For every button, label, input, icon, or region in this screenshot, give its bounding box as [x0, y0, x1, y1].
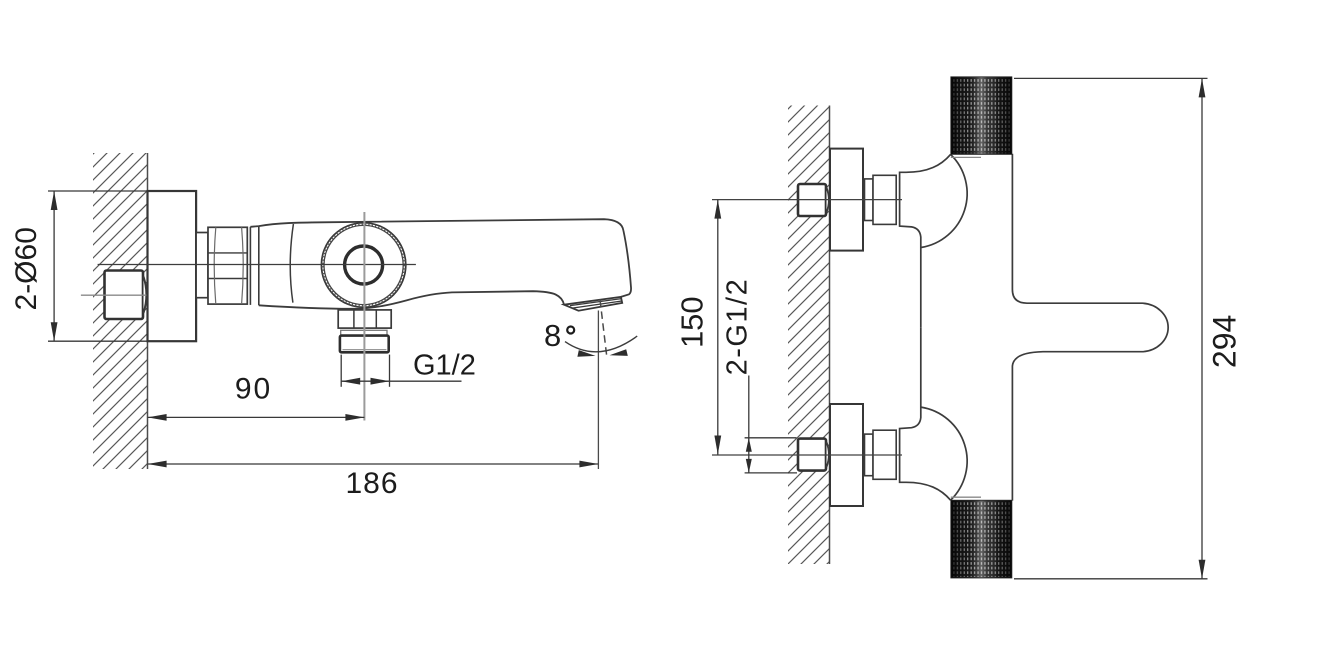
body junction arc left view — [290, 224, 293, 303]
faucet body top edge and spout left view — [250, 219, 631, 297]
svg-text:2-G1/2: 2-G1/2 — [722, 278, 754, 376]
dimension 2-G1/2 — [722, 278, 798, 473]
spout aerator tip left view — [564, 297, 622, 311]
wall surface line left view — [147, 153, 149, 469]
svg-text:8: 8 — [544, 318, 561, 353]
inlet square fitting left view — [105, 271, 147, 320]
vertical centerline through knob and outlet — [363, 212, 365, 421]
wall surface line right view — [829, 106, 831, 565]
top inlet connection right view — [712, 149, 981, 328]
spout flow dashed line 8 deg — [600, 300, 607, 358]
outlet hex nut below body left view — [338, 310, 391, 328]
escutcheon flange left view — [148, 191, 197, 341]
svg-text:G1/2: G1/2 — [413, 350, 476, 382]
body collar joint lines left view — [250, 226, 258, 305]
svg-text:294: 294 — [1207, 315, 1243, 368]
svg-text:2-Ø60: 2-Ø60 — [10, 227, 43, 310]
main horizontal centerline left view — [98, 264, 416, 266]
connector hex nut left view — [208, 227, 247, 304]
svg-text:90: 90 — [235, 373, 272, 406]
svg-text:186: 186 — [345, 467, 398, 500]
wall hatching left view — [93, 153, 148, 469]
dimension G1/2 on outlet — [341, 350, 476, 387]
outlet washer left view — [341, 330, 387, 335]
inlet square centerline — [81, 294, 151, 296]
svg-text:150: 150 — [675, 296, 710, 348]
dimension 90 — [148, 373, 365, 421]
dimension 150 — [675, 200, 722, 455]
bottom inlet connection right view (mirror) — [712, 327, 981, 506]
connector tab left view — [196, 233, 208, 298]
wall hatching right view — [788, 106, 830, 565]
bottom knurled handle right view — [951, 501, 1011, 578]
spout tip extension line — [597, 311, 599, 470]
top knurled handle right view — [951, 77, 1011, 154]
outlet threaded pipe left view — [340, 336, 389, 353]
body right edge and spout tongue right view — [1012, 154, 1168, 501]
faucet body bottom edge left view — [259, 291, 564, 309]
dimension 294 — [1014, 78, 1243, 578]
dimension 2-Ø60 — [10, 191, 148, 341]
label 8 deg — [544, 318, 574, 353]
knob circle left view — [321, 223, 405, 307]
dimension 186 — [148, 461, 599, 500]
angle arc 8 deg — [565, 336, 637, 357]
